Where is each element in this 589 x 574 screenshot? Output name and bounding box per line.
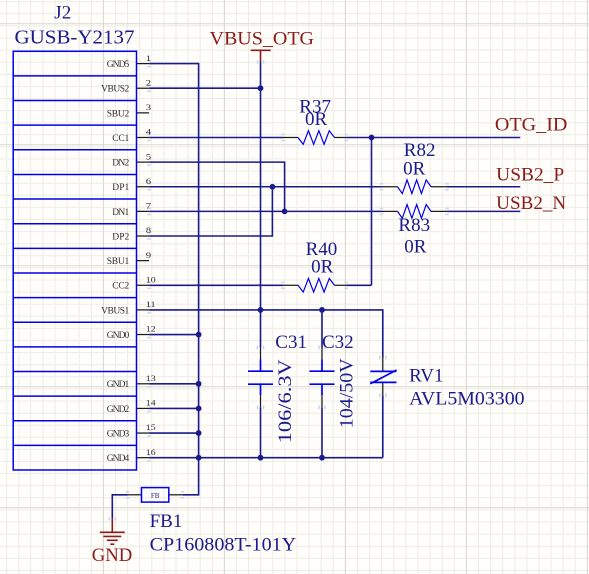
svg-text:5: 5 bbox=[146, 151, 151, 161]
svg-text:14: 14 bbox=[146, 398, 157, 408]
svg-text:9: 9 bbox=[146, 250, 151, 260]
svg-text:GND0: GND0 bbox=[107, 331, 130, 341]
svg-text:12: 12 bbox=[146, 324, 156, 334]
svg-text:GND: GND bbox=[92, 545, 133, 566]
svg-text:13: 13 bbox=[146, 373, 156, 383]
svg-text:USB2_P: USB2_P bbox=[496, 165, 564, 186]
svg-text:USB2_N: USB2_N bbox=[496, 193, 566, 214]
svg-text:AVL5M03300: AVL5M03300 bbox=[409, 389, 524, 410]
svg-text:GND2: GND2 bbox=[107, 405, 130, 415]
svg-text:SBU2: SBU2 bbox=[107, 109, 130, 119]
svg-text:VBUS1: VBUS1 bbox=[101, 306, 129, 316]
svg-text:104/50V: 104/50V bbox=[336, 358, 357, 428]
svg-text:OTG_ID: OTG_ID bbox=[495, 115, 568, 136]
svg-text:8: 8 bbox=[146, 225, 151, 235]
svg-text:0R: 0R bbox=[404, 237, 427, 258]
svg-text:RV1: RV1 bbox=[409, 366, 443, 387]
svg-text:VBUS2: VBUS2 bbox=[101, 85, 129, 95]
svg-text:J2: J2 bbox=[54, 2, 71, 23]
svg-text:FB1: FB1 bbox=[150, 511, 183, 532]
svg-text:GUSB-Y2137: GUSB-Y2137 bbox=[15, 27, 135, 49]
svg-text:0R: 0R bbox=[403, 159, 426, 180]
svg-text:GND3: GND3 bbox=[107, 429, 130, 439]
svg-text:7: 7 bbox=[146, 201, 151, 211]
svg-text:CP160808T-101Y: CP160808T-101Y bbox=[150, 535, 297, 556]
svg-text:11: 11 bbox=[146, 299, 156, 309]
svg-text:GND4: GND4 bbox=[107, 454, 130, 464]
svg-text:CC1: CC1 bbox=[112, 134, 129, 144]
svg-text:3: 3 bbox=[146, 102, 151, 112]
svg-text:DN1: DN1 bbox=[112, 208, 129, 218]
svg-text:GND5: GND5 bbox=[107, 60, 130, 70]
svg-text:DP1: DP1 bbox=[112, 183, 129, 193]
svg-text:VBUS_OTG: VBUS_OTG bbox=[210, 28, 315, 49]
svg-text:0R: 0R bbox=[305, 109, 328, 130]
svg-text:CC2: CC2 bbox=[112, 282, 129, 292]
svg-text:SBU1: SBU1 bbox=[107, 257, 130, 267]
svg-text:R83: R83 bbox=[398, 215, 430, 236]
svg-text:1: 1 bbox=[146, 53, 151, 63]
svg-text:4: 4 bbox=[146, 127, 152, 137]
svg-text:15: 15 bbox=[146, 422, 156, 432]
svg-text:GND1: GND1 bbox=[107, 380, 130, 390]
svg-text:2: 2 bbox=[146, 77, 151, 87]
svg-text:DP2: DP2 bbox=[112, 232, 129, 242]
svg-text:C32: C32 bbox=[322, 332, 354, 353]
svg-text:10: 10 bbox=[146, 275, 156, 285]
svg-text:C31: C31 bbox=[275, 332, 307, 353]
svg-text:106/6.3V: 106/6.3V bbox=[275, 359, 296, 443]
svg-text:0R: 0R bbox=[311, 257, 334, 278]
svg-text:6: 6 bbox=[146, 176, 151, 186]
svg-text:DN2: DN2 bbox=[112, 159, 129, 169]
svg-text:16: 16 bbox=[146, 447, 156, 457]
svg-text:FB: FB bbox=[151, 492, 160, 500]
